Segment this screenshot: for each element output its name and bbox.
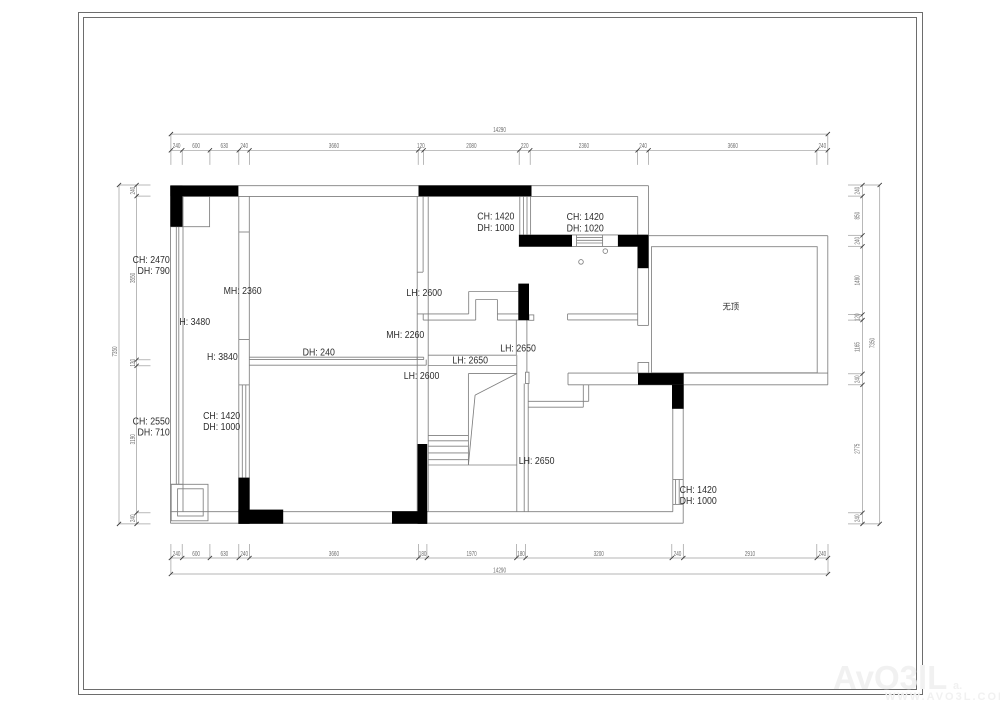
svg-text:120: 120 [855,313,862,321]
closet partition [582,385,584,407]
inner border frame [84,18,917,690]
bedroom right wall [637,246,639,325]
svg-text:240: 240 [130,514,137,522]
svg-text:3190: 3190 [130,434,137,445]
svg-text:DH: 1000: DH: 1000 [477,222,514,234]
svg-text:240: 240 [130,186,137,194]
svg-text:3550: 3550 [130,272,137,283]
svg-text:240: 240 [855,236,862,244]
bath notch wall [469,291,519,293]
svg-text:DH: 790: DH: 790 [138,264,170,276]
watermark [833,659,1000,703]
svg-text:CH: 2470: CH: 2470 [133,253,170,265]
svg-text:240: 240 [173,143,181,150]
svg-text:240: 240 [855,514,862,522]
svg-text:2910: 2910 [745,551,756,558]
bottom middle room left wall [523,384,525,512]
svg-text:240: 240 [173,551,181,558]
top exterior wall [171,185,649,187]
black column right-mid [672,385,684,409]
svg-text:220: 220 [521,143,529,150]
bedroom bottom band [568,313,638,315]
right wall x672-684 [672,385,674,512]
svg-text:180: 180 [517,551,525,558]
box above terrace band [638,363,649,374]
svg-text:1165: 1165 [855,341,862,351]
svg-text:180: 180 [419,551,427,558]
svg-text:240: 240 [674,551,682,558]
svg-text:DH: 710: DH: 710 [138,426,170,438]
svg-text:H: 3840: H: 3840 [207,351,238,363]
black column bottom-left vertical [238,478,249,524]
interior wall A x239 [238,196,240,511]
svg-text:2360: 2360 [579,143,590,150]
svg-text:CH: 1420: CH: 1420 [203,409,240,421]
svg-text:H: 3480: H: 3480 [179,316,210,328]
svg-text:600: 600 [192,551,200,558]
wall A window [241,385,243,478]
svg-text:LH: 2650: LH: 2650 [452,354,488,366]
svg-text:130: 130 [130,358,137,366]
svg-text:LH: 2650: LH: 2650 [519,455,555,467]
svg-text:LH: 2650: LH: 2650 [500,342,536,354]
top-right bay outline [648,186,650,236]
black column bottom-mid vertical [418,444,428,524]
hall wall x516-527 [515,320,517,355]
black wall top bar [419,185,532,196]
mid partition wall DH240 [249,356,423,358]
svg-text:MH: 2360: MH: 2360 [224,284,262,296]
notch box right of column [529,315,534,320]
black column top-right [638,235,649,268]
bay sill band [519,234,649,236]
svg-text:DH: 1000: DH: 1000 [203,421,240,433]
svg-text:850: 850 [855,211,862,219]
black wall bottom-left horizontal [238,510,283,524]
svg-text:2775: 2775 [855,443,862,454]
svg-text:7350: 7350 [112,346,119,357]
wall A tick [239,339,250,341]
svg-text:7350: 7350 [870,337,877,348]
svg-text:DH: 1020: DH: 1020 [567,222,604,234]
svg-text:CH: 1420: CH: 1420 [567,210,604,222]
bay window wall x520-531 [519,196,521,235]
svg-text:DH: 240: DH: 240 [303,346,335,358]
black column middle [518,284,529,321]
svg-text:240: 240 [240,551,248,558]
svg-text:3660: 3660 [728,143,739,150]
right wall window [675,480,677,505]
bottom exterior wall [171,511,673,513]
svg-text:无顶: 无顶 [723,302,740,312]
svg-text:600: 600 [192,143,200,150]
svg-text:240: 240 [855,186,862,194]
svg-text:LH: 2600: LH: 2600 [404,369,440,381]
svg-text:WWW.AVO3L.COM: WWW.AVO3L.COM [885,691,1000,703]
shaft square [171,484,208,521]
svg-text:MH: 2260: MH: 2260 [386,328,424,340]
left exterior wall [170,186,172,524]
wardrobe top-left room [182,196,209,226]
svg-text:1480: 1480 [855,275,862,286]
terrace (wuding) outer [649,235,828,237]
svg-text:14290: 14290 [493,568,506,575]
black wall top-left vertical [170,186,182,227]
interior wall B x417-428 [416,196,418,511]
svg-text:DH: 1000: DH: 1000 [680,494,717,506]
svg-text:1970: 1970 [466,551,477,558]
black bay sill left [519,235,572,247]
svg-text:120: 120 [417,143,425,150]
black wall bottom-mid horizontal [392,511,427,524]
svg-text:630: 630 [221,551,229,558]
svg-text:2080: 2080 [466,143,477,150]
black terrace wall [638,373,684,385]
svg-text:CH: 2550: CH: 2550 [133,415,170,427]
black bay sill right [618,235,648,247]
door knob circles [603,249,608,254]
svg-text:240: 240 [818,143,826,150]
svg-text:3660: 3660 [329,551,340,558]
left wall window [175,227,177,485]
svg-text:LH: 2600: LH: 2600 [406,286,442,298]
svg-text:240: 240 [855,375,862,383]
black wall top-left horizontal [170,186,238,197]
svg-text:CH: 1420: CH: 1420 [680,483,717,495]
stairs [428,365,517,367]
svg-text:240: 240 [240,143,248,150]
svg-text:240: 240 [639,143,647,150]
terrace inner [652,247,818,373]
svg-text:3660: 3660 [329,143,340,150]
svg-text:3200: 3200 [594,551,605,558]
svg-text:630: 630 [221,143,229,150]
svg-text:CH: 1420: CH: 1420 [477,210,514,222]
svg-text:14290: 14290 [493,127,506,134]
svg-text:240: 240 [819,551,827,558]
bay band window ladder [576,235,578,247]
